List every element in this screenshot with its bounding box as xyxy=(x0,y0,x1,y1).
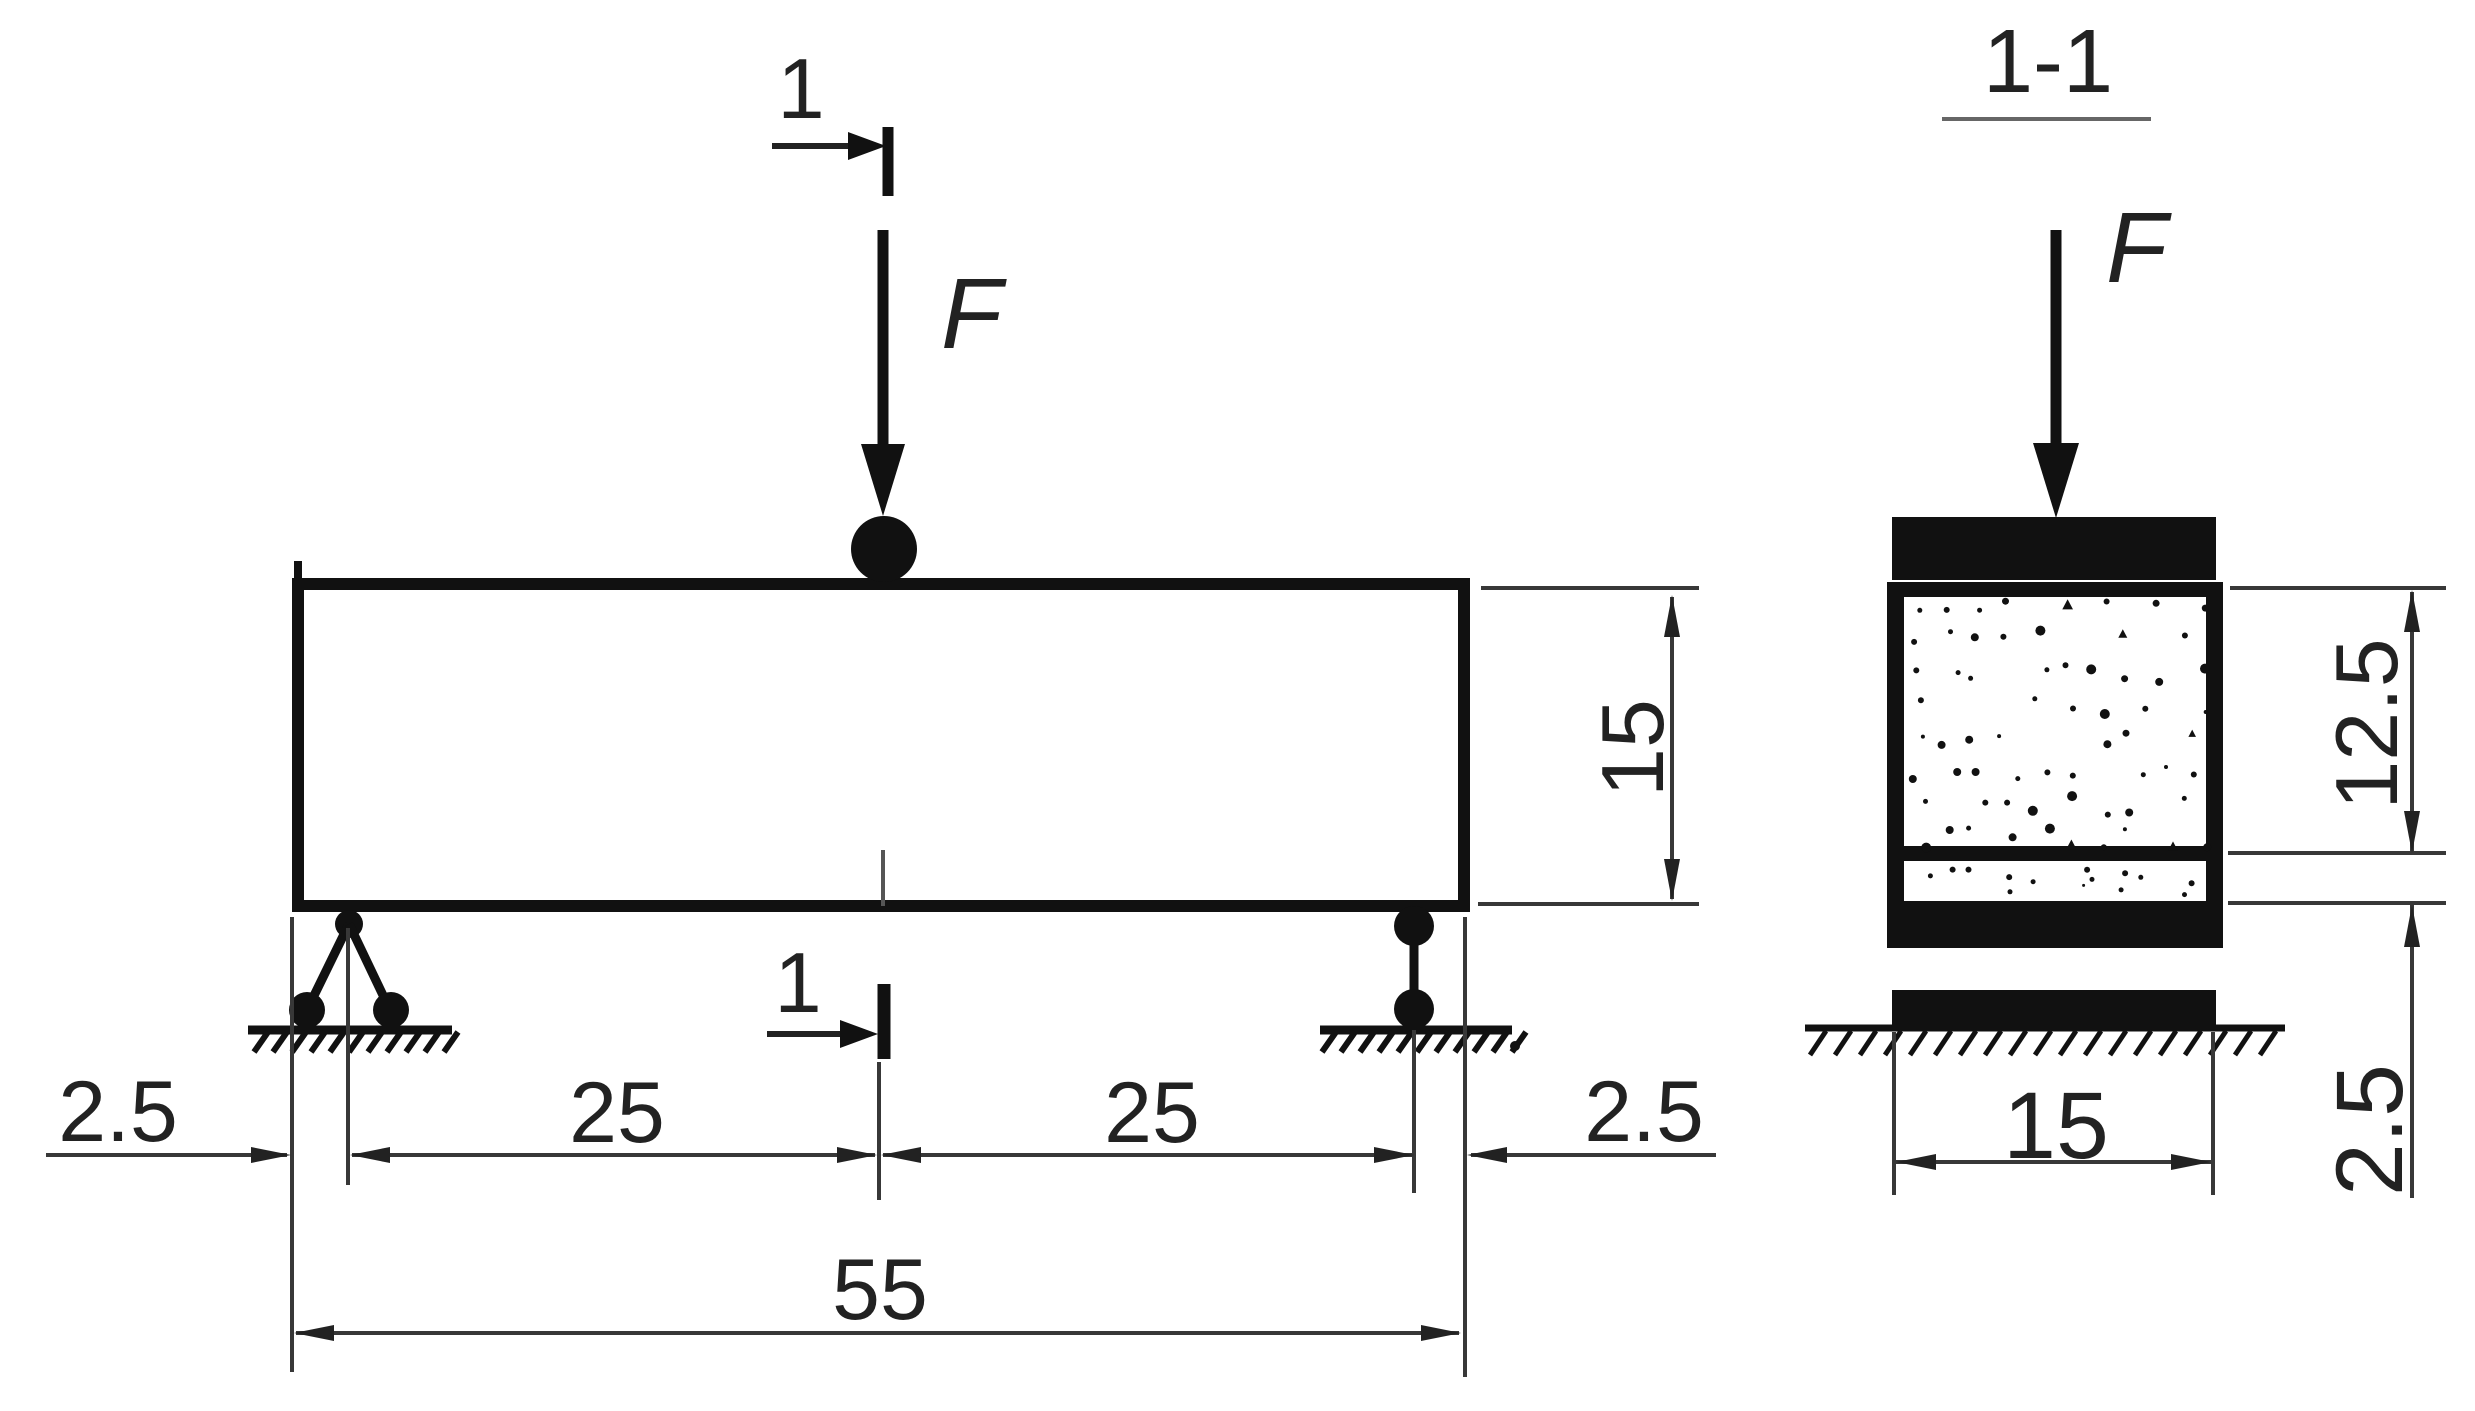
svg-text:12.5: 12.5 xyxy=(2317,638,2416,809)
svg-text:F: F xyxy=(2106,192,2172,304)
svg-text:25: 25 xyxy=(569,1065,665,1161)
svg-text:1-1: 1-1 xyxy=(1983,12,2113,112)
svg-text:55: 55 xyxy=(832,1242,928,1338)
svg-text:25: 25 xyxy=(1104,1065,1200,1161)
svg-text:1: 1 xyxy=(777,42,824,137)
svg-text:15: 15 xyxy=(1583,699,1682,797)
svg-text:F: F xyxy=(941,258,1007,370)
svg-text:2.5: 2.5 xyxy=(1584,1064,1704,1160)
svg-text:2.5: 2.5 xyxy=(58,1064,178,1160)
svg-text:15: 15 xyxy=(2003,1073,2109,1179)
svg-text:1: 1 xyxy=(774,936,821,1031)
svg-text:2.5: 2.5 xyxy=(2317,1064,2423,1196)
